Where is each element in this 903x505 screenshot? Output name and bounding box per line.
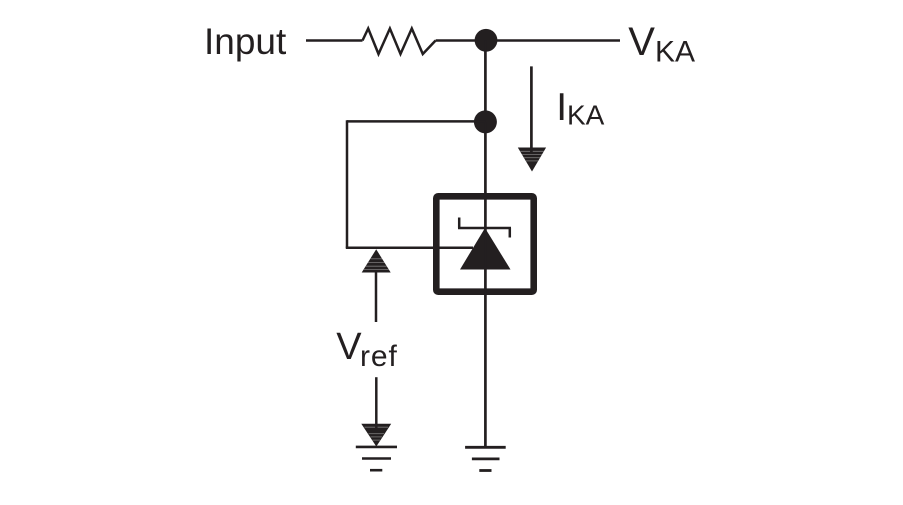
TL431 symbol (adjustable shunt reference) — [458, 218, 511, 270]
TL431 U1 box — [436, 196, 533, 291]
svg-text:Input: Input — [204, 21, 287, 62]
wire anode to ground — [484, 295, 487, 447]
svg-text:V: V — [628, 20, 655, 64]
wire feedback to ref input — [346, 247, 473, 250]
wire anode inside box — [484, 196, 487, 295]
svg-text:V: V — [336, 326, 362, 368]
label Vref — [336, 326, 397, 373]
svg-text:KA: KA — [655, 36, 695, 69]
arrow Vref up — [362, 249, 391, 272]
resistor R1 — [363, 29, 436, 55]
wire feedback horizontal from dot — [347, 120, 485, 123]
arrow Vref down to ground — [361, 424, 391, 447]
wire cathode vertical (dot to dot) — [484, 40, 487, 122]
junction dot feedback — [474, 110, 497, 133]
wire resistor to VKA — [436, 39, 620, 42]
current arrow IKA — [518, 66, 546, 171]
label IKA — [556, 86, 604, 131]
ground right — [465, 447, 506, 470]
ground left — [356, 447, 397, 470]
wire feedback vertical — [346, 120, 349, 248]
node label VKA — [628, 20, 695, 69]
wire dot to box top — [484, 122, 487, 196]
wire Vref shaft lower — [375, 377, 378, 428]
junction dot top — [475, 29, 498, 52]
wire input to resistor — [306, 39, 363, 42]
svg-text:KA: KA — [567, 100, 605, 131]
wire Vref shaft upper — [375, 272, 378, 323]
svg-text:ref: ref — [360, 340, 398, 373]
svg-text:I: I — [556, 86, 567, 129]
